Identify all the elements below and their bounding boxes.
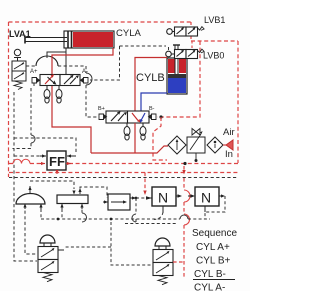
exhaust silencer A1: [44, 86, 50, 103]
red hops over verticals: [13, 159, 30, 163]
wire CYLA rod-side to valve port (black): [47, 48, 66, 74]
pushbutton valve PB1: [38, 235, 64, 282]
red dashed bus y172.5: [9, 172, 238, 174]
svg-text:CYLB: CYLB: [136, 72, 165, 84]
exhaust silencer B2: [140, 123, 146, 140]
wire AND input1 down: [61, 209, 63, 219]
memory box N2: [195, 187, 219, 212]
wire vertical x14 long: [14, 92, 37, 261]
valve U-A 5/2: [30, 69, 88, 86]
wire into N2: [188, 195, 191, 197]
valve U-B 5/2: [98, 106, 156, 123]
black dashed bottom bus y219: [41, 218, 210, 220]
red dashed branch down from B- line: [153, 117, 167, 160]
svg-text:CYL B+: CYL B+: [196, 256, 231, 267]
svg-text:N: N: [158, 190, 168, 206]
wire lower dashed segment y223.5: [125, 223, 178, 225]
pilot A+: [32, 78, 37, 84]
svg-text:Sequence: Sequence: [192, 228, 237, 239]
wire FF right input from top line: [14, 138, 76, 152]
wire CYLA cap-side to valve port (red): [52, 48, 113, 74]
wire A valve supply down (red): [52, 86, 91, 153]
node junction B-: [159, 115, 162, 118]
wire dome input2 down: [40, 209, 42, 219]
svg-text:A-: A-: [82, 69, 88, 75]
svg-text:B+: B+: [98, 106, 105, 112]
exhaust silencer B1: [124, 123, 130, 140]
wire supply manifold (red) with jog: [91, 146, 168, 153]
svg-text:CYL A+: CYL A+: [196, 242, 230, 253]
wire hop arc: [36, 56, 58, 66]
red dashed boundary left: [8, 22, 10, 177]
wire amp junction down with hop: [135, 198, 137, 222]
black dashed bus y177.5: [9, 177, 237, 179]
wire N2 out down: [219, 195, 223, 197]
limit valve LVB1: [167, 27, 204, 36]
regulator R1: [187, 129, 205, 163]
text sequence block: [192, 228, 237, 291]
wire branch down to valves PB1 PB2: [64, 222, 152, 265]
pushbutton valve PB2: [153, 238, 173, 285]
memory box N1: [152, 187, 176, 213]
flip-flop FF: [47, 151, 66, 170]
svg-text:Air: Air: [223, 127, 235, 138]
cylinder CYLA: [25, 31, 114, 48]
wire AND output to amplifier: [80, 187, 107, 198]
svg-text:A+: A+: [30, 69, 38, 75]
cylinder CYLB: [167, 45, 187, 94]
red dashed drop to N1 input: [144, 173, 146, 191]
AND box: [57, 195, 88, 222]
svg-text:N: N: [201, 190, 211, 206]
wire LVA1 output to B+ pilot with hop: [26, 66, 97, 117]
svg-text:LVB0: LVB0: [203, 51, 224, 61]
wire amp out to N1: [130, 197, 136, 199]
red dashed boundary top: [9, 21, 192, 23]
wire B valve supply down (red): [134, 123, 136, 153]
red vertical main x184 with hops: [183, 166, 185, 278]
red dashed signal line through FF (y163.5): [9, 163, 238, 165]
wire vertical x25 dome to PB1: [25, 205, 37, 254]
wire CYLB top port to valve B (red): [135, 58, 167, 112]
pilot B+: [99, 114, 104, 120]
limit valve LVB0: [166, 41, 204, 59]
OR gate dome: [16, 194, 45, 209]
wire dome output up and right to AND box: [30, 181, 74, 193]
wire LVB0 to A- pilot (black dashed): [120, 46, 169, 50]
wire N1 stem to bus: [154, 212, 163, 220]
svg-text:CYLA: CYLA: [116, 28, 141, 39]
svg-text:CYL B-: CYL B-: [194, 269, 226, 280]
wire PB2 right to red bus: [173, 261, 184, 263]
svg-text:CYL A-: CYL A-: [194, 283, 225, 291]
limit valve LVA1: [12, 49, 26, 89]
lubricator L1 diamond: [207, 137, 223, 153]
wire A+ pilot down x31 with hop: [13, 83, 35, 149]
svg-text:In: In: [225, 149, 233, 160]
node on red line: [183, 162, 186, 165]
svg-text:FF: FF: [49, 154, 65, 169]
svg-text:B-: B-: [149, 106, 155, 112]
FF bottom red stub: [56, 170, 58, 174]
wire CYLB bottom port to valve B (blue): [141, 93, 167, 111]
wire FF left input (black dashed): [14, 155, 40, 157]
wire N1 out: [176, 195, 181, 197]
red dashed drop to LVB1: [190, 22, 192, 41]
pilot A-: [84, 78, 89, 84]
air inlet arrow: [223, 140, 233, 150]
pilot B-: [152, 114, 157, 120]
exhaust silencer A2: [56, 86, 62, 103]
amplifier box with arrow: [103, 194, 130, 210]
svg-text:LVB1: LVB1: [204, 15, 225, 25]
red dashed box left side / LVB0 to B- pilot: [157, 41, 200, 117]
red dashed box right side: [191, 41, 238, 163]
filter F1 diamond: [168, 136, 186, 154]
